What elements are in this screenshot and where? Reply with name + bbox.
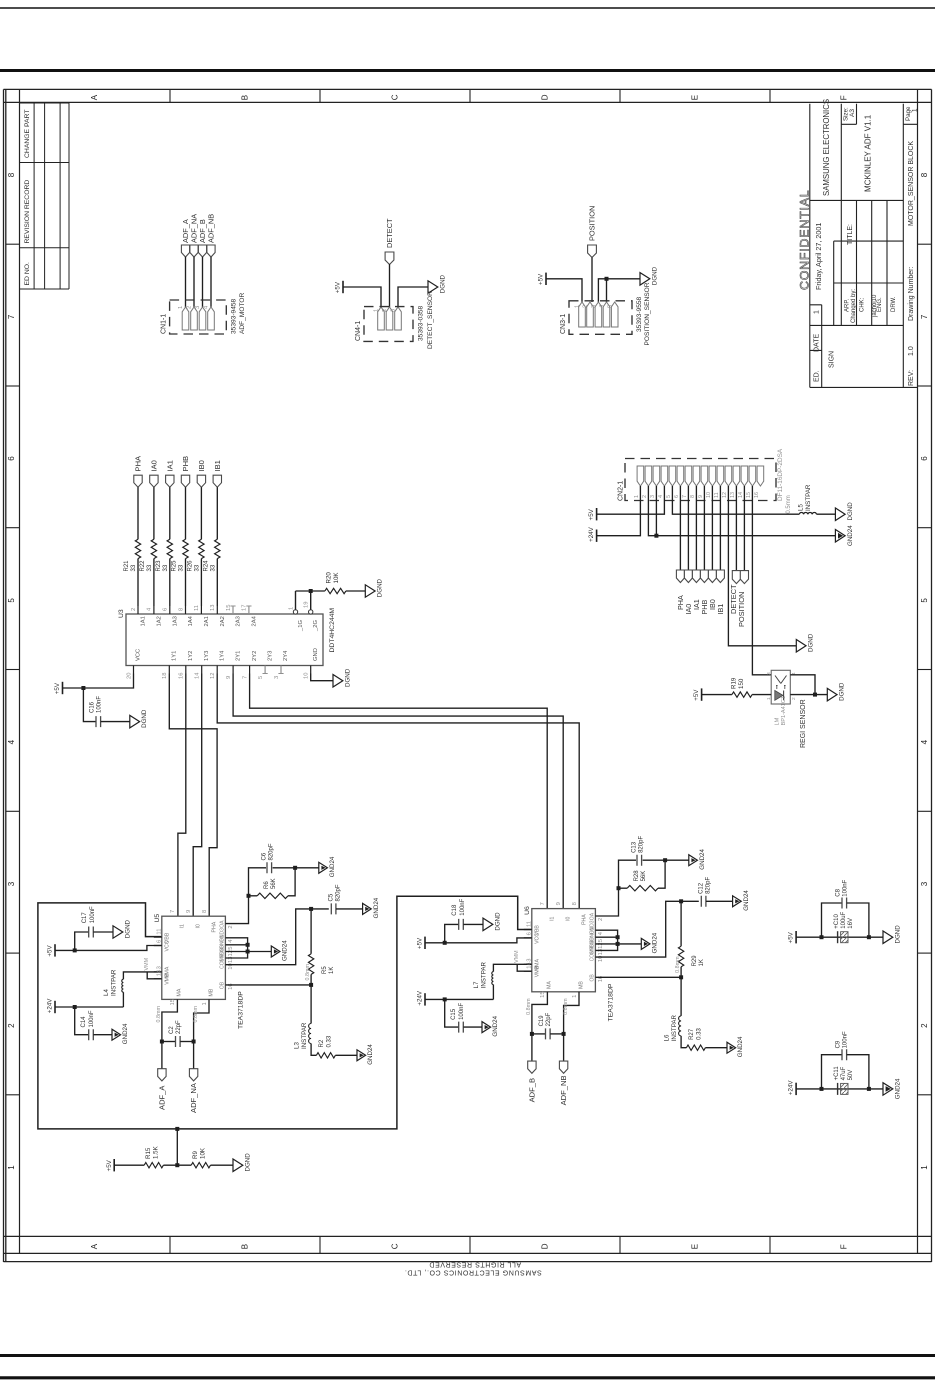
connector pin CN2-1.6 xyxy=(677,466,684,486)
svg-text:_2G: _2G xyxy=(313,620,319,632)
svg-text:GND24: GND24 xyxy=(894,1078,901,1099)
svg-text:6: 6 xyxy=(7,456,16,461)
svg-text:INSTPAR: INSTPAR xyxy=(481,962,488,989)
wire flag IB0 to RR26 xyxy=(200,487,202,539)
power +5V (CN2-1) xyxy=(596,508,598,520)
wire U5 COMP to C5 xyxy=(225,909,328,965)
svg-text:0.8mm: 0.8mm xyxy=(563,998,569,1015)
wire C6 to GND24 xyxy=(273,867,319,869)
resistor R15 1.5K xyxy=(144,1163,163,1168)
pin U3.20 (VCC) xyxy=(133,666,135,674)
pin U3.7 (2Y2) xyxy=(249,666,251,674)
wire DETECT to CN4-1 pin2 xyxy=(389,264,391,307)
svg-text:33: 33 xyxy=(210,564,216,571)
svg-text:12: 12 xyxy=(722,492,728,498)
svg-text:PHB: PHB xyxy=(181,456,190,472)
wire C15 to GND24 xyxy=(463,1026,482,1028)
svg-text:150: 150 xyxy=(738,678,745,689)
IC U5 TEA3718DP body xyxy=(162,916,226,999)
wire U5 pin2 to snubber xyxy=(225,868,266,924)
svg-text:SAMSUNG ELECTRONICS CO., LTD.: SAMSUNG ELECTRONICS CO., LTD. xyxy=(404,1269,541,1276)
ground GND24 (C14) xyxy=(112,1029,121,1040)
pin U6.11 (VBB) xyxy=(524,929,532,931)
connector pin CN4-1.1 xyxy=(378,307,385,330)
svg-text:3: 3 xyxy=(391,309,397,312)
svg-text:820pF: 820pF xyxy=(706,877,712,894)
svg-text:+5V: +5V xyxy=(538,273,545,285)
svg-text:C13: C13 xyxy=(632,841,638,853)
svg-text:B: B xyxy=(241,95,250,100)
svg-text:C17: C17 xyxy=(82,912,88,924)
svg-text:1Y1: 1Y1 xyxy=(172,651,178,661)
svg-text:MA: MA xyxy=(177,988,183,996)
svg-text:16V: 16V xyxy=(848,918,854,929)
svg-text:C18: C18 xyxy=(452,904,458,916)
wire U5 GND pin12 to GND24 xyxy=(225,951,271,953)
wire net 1Y1 to U5 pin8 xyxy=(169,674,217,917)
ground DGND (CN2-1 pin12) xyxy=(796,640,806,653)
svg-text:16: 16 xyxy=(754,492,760,498)
svg-text:IB1: IB1 xyxy=(716,604,725,615)
wire VBB to R15 R9 node xyxy=(176,1129,178,1165)
svg-text:CN2-1: CN2-1 xyxy=(617,481,624,501)
svg-text:A3: A3 xyxy=(849,109,856,117)
svg-text:2: 2 xyxy=(642,495,648,498)
junction C2 right xyxy=(192,1040,196,1044)
wire CN2-1 pin6 to flag PHA xyxy=(679,486,681,570)
svg-text:15: 15 xyxy=(170,999,176,1005)
capacitor C16 100nF xyxy=(96,716,101,727)
wire R26 to U3 pin xyxy=(200,559,202,606)
inductor L3 INSTPAR xyxy=(309,1024,312,1044)
page rule thick top xyxy=(0,69,935,72)
svg-text:+5V: +5V xyxy=(417,937,424,949)
svg-text:8: 8 xyxy=(178,608,184,611)
wire C8 loop right xyxy=(847,903,869,937)
svg-text:MB: MB xyxy=(208,988,214,996)
wire +5V bulk rail xyxy=(796,936,883,938)
svg-text:_1G: _1G xyxy=(298,620,304,632)
wire C16 to DGND xyxy=(101,721,130,723)
svg-text:22pF: 22pF xyxy=(546,1012,552,1026)
svg-text:ADF_A: ADF_A xyxy=(158,1085,167,1110)
svg-text:L5: L5 xyxy=(798,504,805,511)
wire CN2-1 pin11 to flag IB1 xyxy=(719,486,721,570)
pin U3.3 (2Y4) xyxy=(280,666,282,674)
resistor R9 10K xyxy=(191,1163,210,1168)
svg-text:100nF: 100nF xyxy=(460,898,466,915)
terminal flag DETECT xyxy=(385,252,394,265)
svg-text:9: 9 xyxy=(698,495,704,498)
svg-text:11: 11 xyxy=(714,492,720,498)
wire L5 to DGND xyxy=(817,513,836,515)
wire R19 to +5V xyxy=(702,694,732,696)
svg-text:LM: LM xyxy=(774,717,780,725)
wire L3 to R2 xyxy=(311,1044,316,1056)
junction C19 left xyxy=(530,1032,534,1036)
resistor R25 33 xyxy=(183,539,188,558)
svg-text:0.8mm: 0.8mm xyxy=(305,964,311,981)
svg-text:2: 2 xyxy=(228,925,234,928)
wire CN2-1 pin8 to flag IA1 xyxy=(695,486,697,570)
connector pin CN3-1.3 xyxy=(595,302,602,327)
capacitor C11 47uF electrolytic xyxy=(837,1083,839,1095)
svg-text:+24V: +24V xyxy=(417,990,424,1005)
wire +24V rail to L7 xyxy=(492,985,494,1000)
capacitor C18 100nF xyxy=(459,919,464,930)
wire C14 to GND24 xyxy=(93,1034,112,1036)
svg-text:MB: MB xyxy=(578,981,584,989)
ground GND24 (C13) xyxy=(689,855,698,866)
pin U5.14 (VMB) xyxy=(154,978,162,980)
wire ADF_NB to CN1-1 pin 4 xyxy=(210,257,212,307)
junction VBB to divider xyxy=(175,1127,179,1131)
svg-text:PHA: PHA xyxy=(134,455,143,472)
capacitor C6 820pF xyxy=(267,862,272,873)
wire C13 to GND24 xyxy=(643,859,689,861)
pin U5.3 (VMA) xyxy=(154,971,162,973)
svg-text:DGND: DGND xyxy=(124,919,131,938)
wire POSITION to CN3-1 pin2 xyxy=(591,258,593,303)
svg-text:3: 3 xyxy=(7,881,16,886)
svg-text:L6: L6 xyxy=(664,1034,671,1041)
wire R5 to sense node xyxy=(310,974,312,985)
terminal flag ADF_NA xyxy=(189,1069,197,1081)
svg-text:5: 5 xyxy=(598,939,604,942)
svg-text:ALL RIGHTS RESERVED: ALL RIGHTS RESERVED xyxy=(429,1261,521,1268)
junction sense node xyxy=(309,983,313,987)
wire CN2-1 pin10 to flag IB0 xyxy=(711,486,713,570)
svg-text:VCC: VCC xyxy=(534,933,540,944)
svg-text:3: 3 xyxy=(526,959,532,962)
resistor R23 33 xyxy=(167,539,172,558)
svg-text:8: 8 xyxy=(202,910,208,913)
svg-text:L4: L4 xyxy=(103,989,110,996)
svg-text:820pF: 820pF xyxy=(269,843,275,860)
connector pin CN3-1.4 xyxy=(603,302,610,327)
svg-text:CHANGE PART: CHANGE PART xyxy=(24,110,31,158)
wire U6 pin1 to flag ADF_NB xyxy=(564,992,579,1061)
junction bulk left xyxy=(820,1087,824,1091)
connector pin CN2-1.13 xyxy=(733,466,740,486)
wire +5V to R15 xyxy=(114,1164,144,1166)
wire CN2-1 pin4 to +5V xyxy=(597,486,665,514)
svg-text:Changed by:: Changed by: xyxy=(851,289,857,323)
wire U6 pin15 to flag ADF_B xyxy=(532,992,548,1061)
svg-text:2: 2 xyxy=(791,697,797,700)
svg-text:R28: R28 xyxy=(634,870,640,882)
svg-text:I1: I1 xyxy=(180,924,186,928)
svg-text:10: 10 xyxy=(706,492,712,498)
pin U6.3 (VMA) xyxy=(524,963,532,965)
svg-text:+C11: +C11 xyxy=(834,1066,840,1081)
junction REGI DGND xyxy=(813,693,817,697)
terminal flag POSITION (CN2-1) xyxy=(740,571,748,584)
svg-text:5: 5 xyxy=(258,676,264,679)
wire R29 to sense node xyxy=(680,967,682,978)
capacitor C10 100uF electrolytic xyxy=(837,931,839,943)
junction snubber right xyxy=(293,866,297,870)
connector pin CN2-1.7 xyxy=(685,466,692,486)
svg-text:GND24: GND24 xyxy=(847,525,854,546)
wire U6 COMP to C12 xyxy=(595,901,698,957)
resistor R19 150 xyxy=(732,692,752,697)
svg-text:1: 1 xyxy=(7,1165,16,1170)
svg-text:TEA3718DP: TEA3718DP xyxy=(607,983,614,1021)
frame row ticks right xyxy=(918,243,932,245)
svg-text:9: 9 xyxy=(186,910,192,913)
wire CN2-1 pin9 to flag PHB xyxy=(703,486,705,570)
svg-text:5: 5 xyxy=(920,598,929,603)
svg-text:VCC: VCC xyxy=(136,649,142,661)
wire R27 to GND24 xyxy=(705,1047,727,1049)
svg-text:CN1-1: CN1-1 xyxy=(160,314,167,334)
svg-text:2: 2 xyxy=(920,1023,929,1028)
pin U3.14 (1Y3) xyxy=(201,666,203,674)
svg-text:+5V: +5V xyxy=(47,945,54,957)
svg-text:20: 20 xyxy=(126,673,132,679)
svg-text:U3: U3 xyxy=(118,609,125,618)
connector pin CN2-1.9 xyxy=(701,466,708,486)
power +5V (CN4-1) xyxy=(342,281,344,293)
svg-text:1A1: 1A1 xyxy=(141,616,147,626)
wire U5 pin1 to flag ADF_NA xyxy=(194,999,209,1068)
svg-text:0.5mm: 0.5mm xyxy=(786,495,792,513)
svg-text:GND24: GND24 xyxy=(737,1036,744,1057)
svg-text:I1: I1 xyxy=(550,916,556,920)
svg-text:U6: U6 xyxy=(524,906,531,915)
page edge line top xyxy=(0,7,935,9)
junction C18 tap xyxy=(443,941,447,945)
junction 1G 2G xyxy=(309,589,313,593)
wire CN2-1 pin13 to flag DETECT xyxy=(735,486,737,571)
svg-text:2A1: 2A1 xyxy=(204,616,210,626)
ground GND24 (CN2-1) xyxy=(835,530,845,543)
svg-text:3: 3 xyxy=(650,495,656,498)
svg-text:+5V: +5V xyxy=(693,689,700,701)
svg-text:1A3: 1A3 xyxy=(172,616,178,626)
wire VBB net loop (U5 pin11 to U6 pin11) xyxy=(38,896,532,1129)
svg-text:DGND: DGND xyxy=(377,578,384,597)
svg-text:15: 15 xyxy=(226,605,232,611)
wire R6 to junction xyxy=(288,868,295,896)
terminal flag IA0 (U3 input) xyxy=(150,475,158,487)
frame column ticks bottom xyxy=(169,1237,171,1254)
junction sense node xyxy=(679,975,683,979)
terminal flag IA1 (U3 input) xyxy=(166,475,174,487)
svg-text:L7: L7 xyxy=(473,981,480,988)
svg-text:100uF: 100uF xyxy=(841,911,847,928)
svg-text:R29: R29 xyxy=(692,955,698,967)
svg-text:R15: R15 xyxy=(145,1147,152,1159)
svg-text:VMM: VMM xyxy=(514,950,520,963)
svg-text:C: C xyxy=(391,1243,400,1249)
junction COMP node xyxy=(679,899,683,903)
terminal flag POSITION xyxy=(588,245,597,258)
svg-text:C19: C19 xyxy=(539,1015,545,1027)
svg-text:D: D xyxy=(541,94,550,100)
svg-text:16: 16 xyxy=(179,673,185,679)
svg-text:DATE: DATE xyxy=(813,334,820,352)
svg-text:IA1: IA1 xyxy=(165,460,174,471)
ground GND24 (C15) xyxy=(482,1022,491,1033)
svg-text:R2: R2 xyxy=(319,1039,325,1047)
svg-text:2Y1: 2Y1 xyxy=(235,651,241,661)
svg-text:ADF_NB: ADF_NB xyxy=(559,1075,568,1105)
connector pin CN2-1.4 xyxy=(661,466,668,486)
junction COMP node xyxy=(309,907,313,911)
wire REGI sensor pin1 to R19 xyxy=(752,694,771,696)
svg-text:INSTPAR: INSTPAR xyxy=(301,1022,308,1049)
connector pin CN2-1.1 xyxy=(637,466,644,486)
ground GND24 (U5 gnd pins) xyxy=(271,946,280,957)
svg-text:13: 13 xyxy=(210,605,216,611)
svg-text:9: 9 xyxy=(556,902,562,905)
svg-text:6: 6 xyxy=(163,608,169,611)
svg-text:7: 7 xyxy=(920,314,929,319)
title block grid xyxy=(810,104,918,388)
junction CN2-1 pin3 xyxy=(654,534,658,538)
svg-text:6: 6 xyxy=(526,932,532,935)
svg-text:DGND: DGND xyxy=(847,502,854,521)
svg-text:820pF: 820pF xyxy=(639,836,645,853)
wire R21 to U3 pin xyxy=(137,559,139,606)
svg-text:DETECT: DETECT xyxy=(385,218,394,248)
svg-text:GND: GND xyxy=(313,648,319,661)
resistor R6 56K xyxy=(249,895,258,897)
wire flag IA0 to RR22 xyxy=(153,487,155,539)
ground DGND (C18) xyxy=(483,918,493,931)
pin U3.9 (2Y1) xyxy=(232,666,234,674)
svg-text:D: D xyxy=(541,1243,550,1249)
svg-text:POSITION: POSITION xyxy=(737,592,746,627)
connector pin CN2-1.5 xyxy=(669,466,676,486)
connector pin CN3-1.1 xyxy=(579,302,586,327)
connector pin CN2-1.8 xyxy=(693,466,700,486)
svg-text:1Y4: 1Y4 xyxy=(219,650,225,661)
wire CN2-1 pin2 to GND24 xyxy=(648,486,835,536)
svg-text:IB1: IB1 xyxy=(213,460,222,471)
svg-text:50V: 50V xyxy=(848,1070,854,1081)
wire flag IA1 to RR23 xyxy=(169,487,171,539)
capacitor C13 820pF xyxy=(637,855,642,866)
connector pin CN2-1.14 xyxy=(741,466,748,486)
svg-text:OB: OB xyxy=(220,981,226,989)
svg-text:COMP: COMP xyxy=(220,953,226,969)
junction GND pin12 xyxy=(616,942,620,946)
svg-text:INSTPAR: INSTPAR xyxy=(111,969,118,996)
junction C15 tap xyxy=(443,997,447,1001)
wire R2 to GND24 xyxy=(335,1054,357,1056)
svg-text:GND24: GND24 xyxy=(743,890,750,911)
svg-text:REVISION RECORD: REVISION RECORD xyxy=(24,180,31,244)
ground DGND (REGI) xyxy=(827,688,837,701)
wire L6 to R27 xyxy=(681,1036,686,1048)
pin U3.15 (2A3) xyxy=(232,606,234,614)
connector CN3-1 dashed box xyxy=(569,301,632,335)
pin U3.18 (1Y1) xyxy=(168,666,170,674)
svg-text:10K: 10K xyxy=(333,572,340,584)
svg-text:C: C xyxy=(391,94,400,100)
wire to C17 xyxy=(75,932,89,950)
power +5V (divider) xyxy=(113,1159,115,1171)
wire +5V to U6 pin6 xyxy=(425,938,532,943)
junction bulk left xyxy=(820,935,824,939)
inductor L4 INSTPAR xyxy=(122,979,124,992)
svg-text:E: E xyxy=(691,1244,700,1249)
svg-text:BP1-A41C1: BP1-A41C1 xyxy=(781,696,787,726)
svg-text:+24V: +24V xyxy=(47,998,54,1013)
connector pin CN2-1.10 xyxy=(709,466,716,486)
svg-text:GND24: GND24 xyxy=(373,897,380,918)
svg-text:ARP.: ARP. xyxy=(845,298,851,312)
svg-text:11: 11 xyxy=(526,921,532,927)
wire R20 to DGND xyxy=(346,590,365,592)
svg-text:2: 2 xyxy=(598,918,604,921)
wire sense to L3 xyxy=(310,985,312,1024)
pin U3.1 (1G) with bubble xyxy=(295,591,297,610)
svg-text:100nF: 100nF xyxy=(89,1010,95,1027)
wire sense to L6 xyxy=(680,977,682,1016)
wire to C18 xyxy=(445,924,459,942)
svg-text:B: B xyxy=(241,1244,250,1249)
resistor R5 1K xyxy=(310,909,312,954)
wire +24V rail to L4 xyxy=(122,992,124,1007)
svg-text:C2: C2 xyxy=(169,1026,175,1034)
pin U3.4 (1A2) xyxy=(153,606,155,614)
power +24V (bulk caps) xyxy=(795,1083,797,1095)
connector pin CN2-1.2 xyxy=(645,466,652,486)
svg-text:9: 9 xyxy=(226,676,232,679)
wire +5V to CN4-1 pin1 xyxy=(343,287,381,307)
svg-text:4: 4 xyxy=(7,739,16,744)
svg-text:2: 2 xyxy=(382,309,388,312)
svg-text:A: A xyxy=(90,1243,99,1249)
svg-text:1: 1 xyxy=(575,305,581,308)
wire CN2-1 pin7 to flag IA0 xyxy=(687,486,689,570)
svg-text:DRW.: DRW. xyxy=(891,296,897,312)
ground DGND (R20) xyxy=(365,585,375,597)
pin U3.11 (2A1) xyxy=(200,606,202,614)
svg-text:ADF_B: ADF_B xyxy=(528,1078,537,1102)
wire flag PHB to RR25 xyxy=(185,487,187,539)
svg-text:2: 2 xyxy=(7,1023,16,1028)
svg-text:+5V: +5V xyxy=(788,931,795,943)
svg-text:VCC: VCC xyxy=(164,940,170,951)
connector pin CN3-1.2 xyxy=(587,302,594,327)
svg-text:13: 13 xyxy=(730,492,736,498)
wire U5 GND pins tie xyxy=(225,938,247,958)
svg-text:SIGN: SIGN xyxy=(828,351,835,368)
svg-text:GND24: GND24 xyxy=(367,1044,374,1065)
frame row ticks left xyxy=(6,243,19,245)
svg-text:INSTPAR: INSTPAR xyxy=(805,484,812,511)
wire U5 pin15 to flag ADF_A xyxy=(162,999,178,1068)
svg-text:OA: OA xyxy=(590,912,596,920)
pin U3.6 (1A3) xyxy=(169,606,171,614)
terminal flag DETECT (CN2-1) xyxy=(732,571,740,584)
svg-text:U5: U5 xyxy=(154,914,161,923)
svg-text:0.33: 0.33 xyxy=(697,1028,703,1040)
wire R22 to U3 pin xyxy=(153,559,155,606)
wire CN2-1 pin12 to DGND xyxy=(728,486,796,646)
wire +24V to L4 xyxy=(55,1006,123,1008)
svg-text:6: 6 xyxy=(674,495,680,498)
connector CN4-1 dashed box xyxy=(364,307,413,342)
svg-text:ADF_NA: ADF_NA xyxy=(189,1082,198,1113)
wire CN2-1 pin14 to flag POSITION xyxy=(743,486,745,571)
svg-text:DF11-16DP-2DSA: DF11-16DP-2DSA xyxy=(777,448,784,501)
